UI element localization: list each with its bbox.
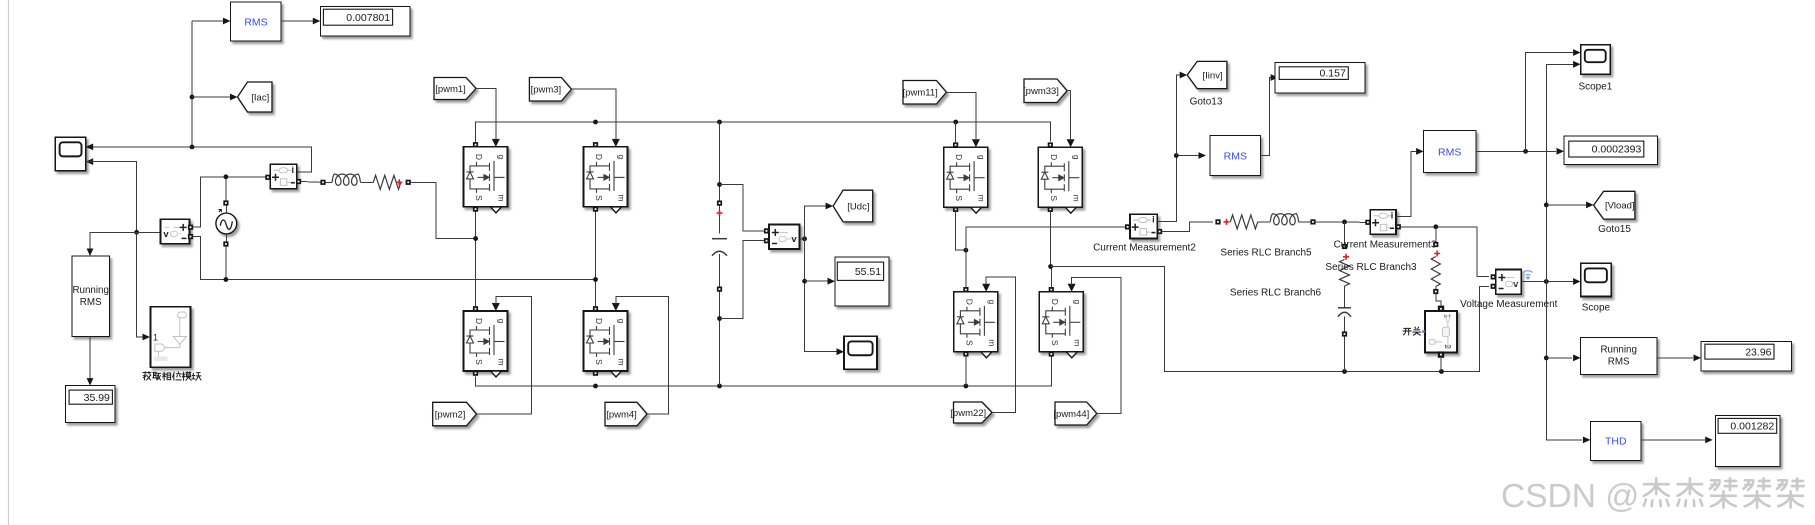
svg-text:35.99: 35.99 xyxy=(84,392,110,404)
mosfet Q44 (bridge2 lower-right) xyxy=(1039,284,1083,358)
display 0.007801 xyxy=(320,7,410,36)
wire iinv up to tag xyxy=(1176,72,1187,156)
goto tag pwm44 xyxy=(1053,402,1096,425)
svg-text:Goto15: Goto15 xyxy=(1598,224,1631,235)
current measurement CM2 xyxy=(1125,214,1162,238)
svg-text:g: g xyxy=(977,155,987,160)
svg-text:m: m xyxy=(987,339,997,346)
wire vm2 down to display xyxy=(805,239,844,355)
wire load from bridge2 midpoint xyxy=(1051,267,1489,372)
current measurement CM1 xyxy=(265,164,301,189)
node load return branch6 xyxy=(1342,369,1347,374)
svg-text:i: i xyxy=(1391,210,1394,220)
mosfet Q1 (bridge1 upper-left) xyxy=(464,139,508,213)
node vm2 display branch xyxy=(802,279,807,284)
node vm2 out xyxy=(802,236,807,241)
capacitor C dc-link xyxy=(712,239,727,256)
label Goto13 xyxy=(1190,97,1223,108)
svg-text:m: m xyxy=(977,195,987,202)
svg-text:Current Measurement3: Current Measurement3 xyxy=(1334,239,1437,250)
svg-text:v: v xyxy=(163,229,169,240)
wire vac signal from voltage measurement xyxy=(137,231,161,233)
wifi badge xyxy=(1524,271,1533,280)
svg-text:[pwm44]: [pwm44] xyxy=(1053,409,1089,420)
svg-text:S: S xyxy=(954,195,964,201)
goto tag pwm33 xyxy=(1023,79,1067,103)
voltage measurement V1 (flipped) xyxy=(161,219,194,244)
watermark csdn xyxy=(1501,478,1804,515)
svg-text:1: 1 xyxy=(153,333,158,343)
switch block xyxy=(1425,311,1457,353)
wire to Iac goto tag xyxy=(192,94,238,101)
block RMS (inv) xyxy=(1210,135,1260,175)
label Scope xyxy=(1582,303,1611,314)
label Goto15 xyxy=(1598,224,1631,235)
port series RL left xyxy=(320,180,325,185)
goto tag pwm2 xyxy=(433,402,477,426)
svg-text:m: m xyxy=(497,358,507,365)
wire to running rms xyxy=(1546,355,1580,362)
svg-text:[pwm22]: [pwm22] xyxy=(950,408,986,419)
block RMS (load) xyxy=(1424,130,1476,172)
voltage measurement VM2 (dc) xyxy=(764,225,800,250)
svg-text:55.51: 55.51 xyxy=(855,266,881,278)
wire vm2 out junction xyxy=(800,238,805,240)
wire vac signal scope to junction xyxy=(86,162,137,233)
wire branch5 mid xyxy=(1258,221,1271,223)
svg-text:THD: THD xyxy=(1605,436,1627,448)
dc- bus xyxy=(476,355,1052,387)
wire port to coil xyxy=(326,181,332,183)
wire coil to port xyxy=(1299,221,1311,223)
wire pwm44 to Q44 gate xyxy=(1072,278,1121,414)
wire switch to return xyxy=(1440,358,1442,372)
svg-text:D: D xyxy=(964,299,974,305)
svg-text:0.0002393: 0.0002393 xyxy=(1592,144,1642,156)
port branch6 top xyxy=(1342,244,1347,249)
goto tag Iac xyxy=(238,82,273,112)
wire branch3 down xyxy=(1435,227,1437,242)
inductor L (ac filter) xyxy=(332,174,361,185)
wire running rms to display 35.99 xyxy=(87,337,94,386)
svg-text:D: D xyxy=(594,154,604,160)
label Current Measurement3 xyxy=(1334,239,1437,250)
polarity branch3 xyxy=(1434,251,1440,257)
scope Scope (load) xyxy=(1581,263,1612,296)
wire cm2 i out to rms xyxy=(1157,152,1206,222)
port branch6 bottom xyxy=(1342,331,1347,336)
node dc- leg2 xyxy=(593,384,598,389)
wire vm2 to display 55.51 xyxy=(805,278,835,285)
wire vac signal to running rms xyxy=(87,232,137,256)
mosfet Q2 (bridge1 lower-left) xyxy=(464,303,508,377)
wire branch6 down xyxy=(1344,222,1346,244)
polarity mark cap red plus xyxy=(717,210,723,216)
svg-text:[pwm4]: [pwm4] xyxy=(606,409,637,420)
wire vm3 out xyxy=(1521,278,1580,285)
svg-text:Scope1: Scope1 xyxy=(1578,82,1612,93)
svg-text:Scope: Scope xyxy=(1582,303,1611,314)
svg-text:S: S xyxy=(474,195,484,201)
wire cap top tap to vm2 plus xyxy=(720,185,766,231)
port switch bottom xyxy=(1438,351,1444,357)
block RMS (Iac) xyxy=(231,2,282,41)
goto tag Iinv xyxy=(1187,61,1227,88)
svg-text:g: g xyxy=(987,299,997,304)
svg-text:Current Measurement2: Current Measurement2 xyxy=(1093,242,1196,253)
display 0.001282 xyxy=(1715,416,1780,467)
node cap bottom tap xyxy=(717,316,722,321)
wire RL to bridge1 leg1 midpoint xyxy=(411,182,476,238)
goto tag Vload xyxy=(1594,191,1635,219)
svg-text:m: m xyxy=(617,358,627,365)
wire bridge2 leg1 top xyxy=(955,122,957,144)
node bridge2 leg1 midpoint xyxy=(964,248,969,253)
svg-text:g: g xyxy=(497,155,507,160)
wire iac signal up to RMS xyxy=(192,18,231,147)
goto tag pwm3 xyxy=(529,78,571,102)
wire branch5 to cm3 xyxy=(1316,221,1366,223)
wire scope1 in1 xyxy=(1526,49,1581,151)
svg-text:i: i xyxy=(292,165,295,175)
wire bridge2 leg1 mid jog xyxy=(956,210,966,250)
svg-text:CSDN @: CSDN @ xyxy=(1501,478,1639,515)
svg-text:Goto13: Goto13 xyxy=(1190,97,1223,108)
node load return switch xyxy=(1439,369,1444,374)
wire pwm4 to Q4 gate xyxy=(616,296,669,414)
wire pwm11 to Q11 gate xyxy=(946,93,976,141)
port switch top xyxy=(1438,306,1444,312)
svg-text:23.96: 23.96 xyxy=(1745,346,1771,358)
wire branch6 cap to port xyxy=(1344,317,1346,332)
wire v1 plus to top rail xyxy=(193,177,266,227)
label switch kaiguan (CJK) xyxy=(1403,327,1425,335)
svg-text:v: v xyxy=(791,234,797,245)
resistor R branch5 xyxy=(1230,215,1257,229)
canvas left border xyxy=(8,0,10,525)
node bridge1 leg1 midpoint xyxy=(473,236,478,241)
wire dc link cap bottom xyxy=(719,254,721,386)
port cap bottom xyxy=(717,287,722,292)
svg-text:RMS: RMS xyxy=(1608,357,1630,368)
scope Scope1 xyxy=(1581,45,1611,75)
svg-text:D: D xyxy=(474,318,484,324)
svg-text:g: g xyxy=(1072,299,1082,304)
goto tag Udc xyxy=(833,190,873,222)
svg-text:[pwm3]: [pwm3] xyxy=(531,85,562,96)
svg-text:[pwm33]: [pwm33] xyxy=(1023,86,1059,97)
svg-text:[Iinv]: [Iinv] xyxy=(1203,70,1223,81)
wire pwm22 to Q22 gate xyxy=(986,277,1015,413)
wire cm3 i to rms3 xyxy=(1396,148,1424,217)
display 0.0002393 xyxy=(1564,136,1657,165)
mosfet Q33 (bridge2 upper-right) xyxy=(1038,139,1082,213)
svg-text:RMS: RMS xyxy=(244,17,267,29)
node branch3 top xyxy=(1433,224,1438,229)
label Series RLC Branch6 xyxy=(1230,288,1322,299)
display 55.51 xyxy=(835,257,889,306)
node vac signal junction xyxy=(134,230,139,235)
svg-text:[pwm2]: [pwm2] xyxy=(435,409,466,420)
wire branch6 to return xyxy=(1344,337,1346,372)
svg-text:g: g xyxy=(617,155,627,160)
node vload tag branch xyxy=(1544,203,1549,208)
svg-text:g: g xyxy=(617,319,627,324)
svg-text:S: S xyxy=(474,359,484,365)
wire bridge1 leg2 mid xyxy=(595,210,597,309)
wire to vload tag xyxy=(1546,202,1593,209)
goto tag pwm4 xyxy=(605,402,647,426)
node branch6 top xyxy=(1342,220,1347,225)
capacitor C branch6 xyxy=(1338,308,1351,317)
node dc+ bridge2 leg1 xyxy=(953,120,958,125)
svg-text:D: D xyxy=(954,154,964,160)
mosfet Q22 (bridge2 lower-left) xyxy=(954,284,998,358)
wire pwm33 to Q33 gate xyxy=(1067,91,1071,141)
node dc- cap xyxy=(717,384,722,389)
voltage measurement VM3 (load) xyxy=(1491,270,1522,295)
wire pwm2 to Q2 gate xyxy=(477,296,532,414)
block THD xyxy=(1590,422,1641,461)
svg-text:[Iac]: [Iac] xyxy=(251,92,269,103)
wire cm2 minus to branch5 xyxy=(1162,222,1213,232)
wire dc link cap top xyxy=(719,122,721,234)
svg-text:0.007801: 0.007801 xyxy=(346,12,390,24)
svg-text:S: S xyxy=(964,340,974,346)
polarity mark branch5 plus xyxy=(1224,219,1230,225)
svg-text:D: D xyxy=(1049,154,1059,160)
label Series RLC Branch5 xyxy=(1220,248,1312,259)
label Current Measurement2 xyxy=(1093,242,1196,253)
wire branch3 to port xyxy=(1435,287,1437,290)
node running rms branch xyxy=(1544,356,1549,361)
svg-text:i: i xyxy=(1152,215,1155,225)
wire pwm3 to Q3 gate xyxy=(571,89,615,140)
node dc+ cap xyxy=(717,120,722,125)
svg-text:RMS: RMS xyxy=(1438,146,1461,158)
wire bridge2 leg1 to cm2 xyxy=(966,227,1125,250)
display 0.157 xyxy=(1275,63,1365,93)
wire pwm1 to Q1 gate xyxy=(476,89,496,141)
svg-text:D: D xyxy=(1050,299,1060,305)
goto tag pwm11 xyxy=(903,81,947,105)
svg-text:RMS: RMS xyxy=(1224,151,1247,163)
wire thd to display xyxy=(1641,437,1713,444)
scope Scope4 (udc) xyxy=(844,336,877,369)
polarity branch6 xyxy=(1343,254,1349,260)
resistor R (ac filter) xyxy=(373,175,401,189)
inductor L branch5 xyxy=(1270,214,1299,225)
svg-text:m: m xyxy=(1072,339,1082,346)
svg-text:m: m xyxy=(1071,195,1081,202)
node bridge1 leg2 midpoint xyxy=(593,277,598,282)
node iac tag branch xyxy=(190,95,195,100)
resistor R branch3 xyxy=(1431,257,1440,287)
label Series RLC Branch3 xyxy=(1325,262,1417,273)
display 23.96 xyxy=(1701,342,1792,371)
wire vload trunk down xyxy=(1546,282,1590,444)
svg-text:S: S xyxy=(1050,340,1060,346)
wire branch3 to switch xyxy=(1436,294,1441,307)
port branch3 bottom xyxy=(1433,289,1438,294)
block Running RMS (load) xyxy=(1581,338,1657,375)
node iac scope branch xyxy=(190,145,195,150)
svg-text:0.157: 0.157 xyxy=(1320,68,1346,80)
goto tag pwm1 xyxy=(434,78,476,100)
svg-text:D: D xyxy=(594,318,604,324)
node scope1 branch xyxy=(1523,149,1528,154)
dc+ bus bridge1 to bridge2 xyxy=(476,122,1051,142)
wire bridge1 leg1 mid xyxy=(475,210,477,309)
svg-text:m: m xyxy=(497,194,507,201)
svg-text:Running: Running xyxy=(72,285,109,296)
node ac top xyxy=(224,174,229,179)
svg-text:Series RLC Branch5: Series RLC Branch5 xyxy=(1220,248,1312,259)
wire coil to resistor xyxy=(361,181,374,183)
block Running RMS (left) xyxy=(72,256,110,337)
wire bridge2 leg1 lower to bus xyxy=(965,355,967,387)
svg-text:Series RLC Branch6: Series RLC Branch6 xyxy=(1230,288,1322,299)
wire cm1 minus to series RL xyxy=(301,181,321,184)
node cap top tap xyxy=(717,182,722,187)
subsystem get-phase module xyxy=(151,307,191,368)
wire v1 minus to bottom rail xyxy=(193,237,596,280)
node bridge2 leg2 midpoint xyxy=(1048,264,1053,269)
svg-text:RMS: RMS xyxy=(80,297,102,308)
wire rms3 out to display xyxy=(1476,148,1564,155)
label Voltage Measurement xyxy=(1460,299,1558,310)
wire vload trunk up xyxy=(1546,61,1580,282)
wire bridge2 leg1 mid to lower xyxy=(965,250,967,289)
wire cap bottom tap to vm2 minus xyxy=(720,241,766,319)
wire rms2 to display 0.157 xyxy=(1260,74,1278,155)
mosfet Q4 (bridge1 lower-right) xyxy=(584,303,628,377)
svg-text:D: D xyxy=(474,154,484,160)
wire bridge2 leg2 mid xyxy=(1050,210,1051,289)
port branch5 right xyxy=(1310,219,1315,224)
port branch5 left xyxy=(1215,219,1220,224)
wire vac signal to phase module xyxy=(137,232,150,340)
display 35.99 xyxy=(66,386,116,423)
svg-text:v: v xyxy=(1513,279,1519,290)
wire branch6 to cap xyxy=(1344,286,1346,308)
wire iac signal from current measurement to scope xyxy=(86,144,312,173)
scope Scope2 (left) xyxy=(55,137,93,171)
svg-text:Voltage Measurement: Voltage Measurement xyxy=(1460,299,1558,310)
svg-text:Running: Running xyxy=(1600,345,1637,356)
node ac bottom xyxy=(224,277,229,282)
polarity mark red plus xyxy=(396,179,402,185)
svg-text:Series RLC Branch3: Series RLC Branch3 xyxy=(1325,262,1417,273)
node dc+ leg2 xyxy=(593,120,598,125)
svg-text:[Udc]: [Udc] xyxy=(847,201,869,212)
resistor R branch6 xyxy=(1340,260,1350,286)
label get-phase-module (CJK) xyxy=(143,372,201,381)
wire running rms to display xyxy=(1657,355,1701,362)
wire cm3 minus to vm3 xyxy=(1401,227,1489,277)
mosfet Q3 (bridge1 upper-right) xyxy=(584,139,628,213)
svg-text:[pwm1]: [pwm1] xyxy=(435,84,466,95)
svg-text:[Vload]: [Vload] xyxy=(1605,201,1635,212)
port cap top xyxy=(717,201,722,206)
svg-text:[pwm11]: [pwm11] xyxy=(903,88,938,99)
current measurement CM3 xyxy=(1365,210,1401,234)
svg-text:S: S xyxy=(594,359,604,365)
wire RMS to display 0.007801 xyxy=(281,18,320,25)
mosfet Q11 (bridge2 upper-left) xyxy=(944,139,988,213)
svg-text:S: S xyxy=(594,195,604,201)
node dc- bridge2 leg1 xyxy=(964,384,969,389)
svg-text:S: S xyxy=(1049,195,1059,201)
svg-text:m: m xyxy=(617,194,627,201)
wire vm2 to Udc tag xyxy=(805,203,834,239)
svg-text:g: g xyxy=(1071,155,1081,160)
ac source V xyxy=(216,177,237,280)
port branch3 top xyxy=(1433,242,1438,247)
port series RL right xyxy=(406,180,411,185)
svg-text:g: g xyxy=(497,319,507,324)
node iinv branch xyxy=(1174,153,1179,158)
goto tag pwm22 xyxy=(950,402,992,423)
svg-text:0.001282: 0.001282 xyxy=(1730,420,1774,432)
label Scope1 xyxy=(1578,82,1612,93)
node vload trunk xyxy=(1544,279,1549,284)
